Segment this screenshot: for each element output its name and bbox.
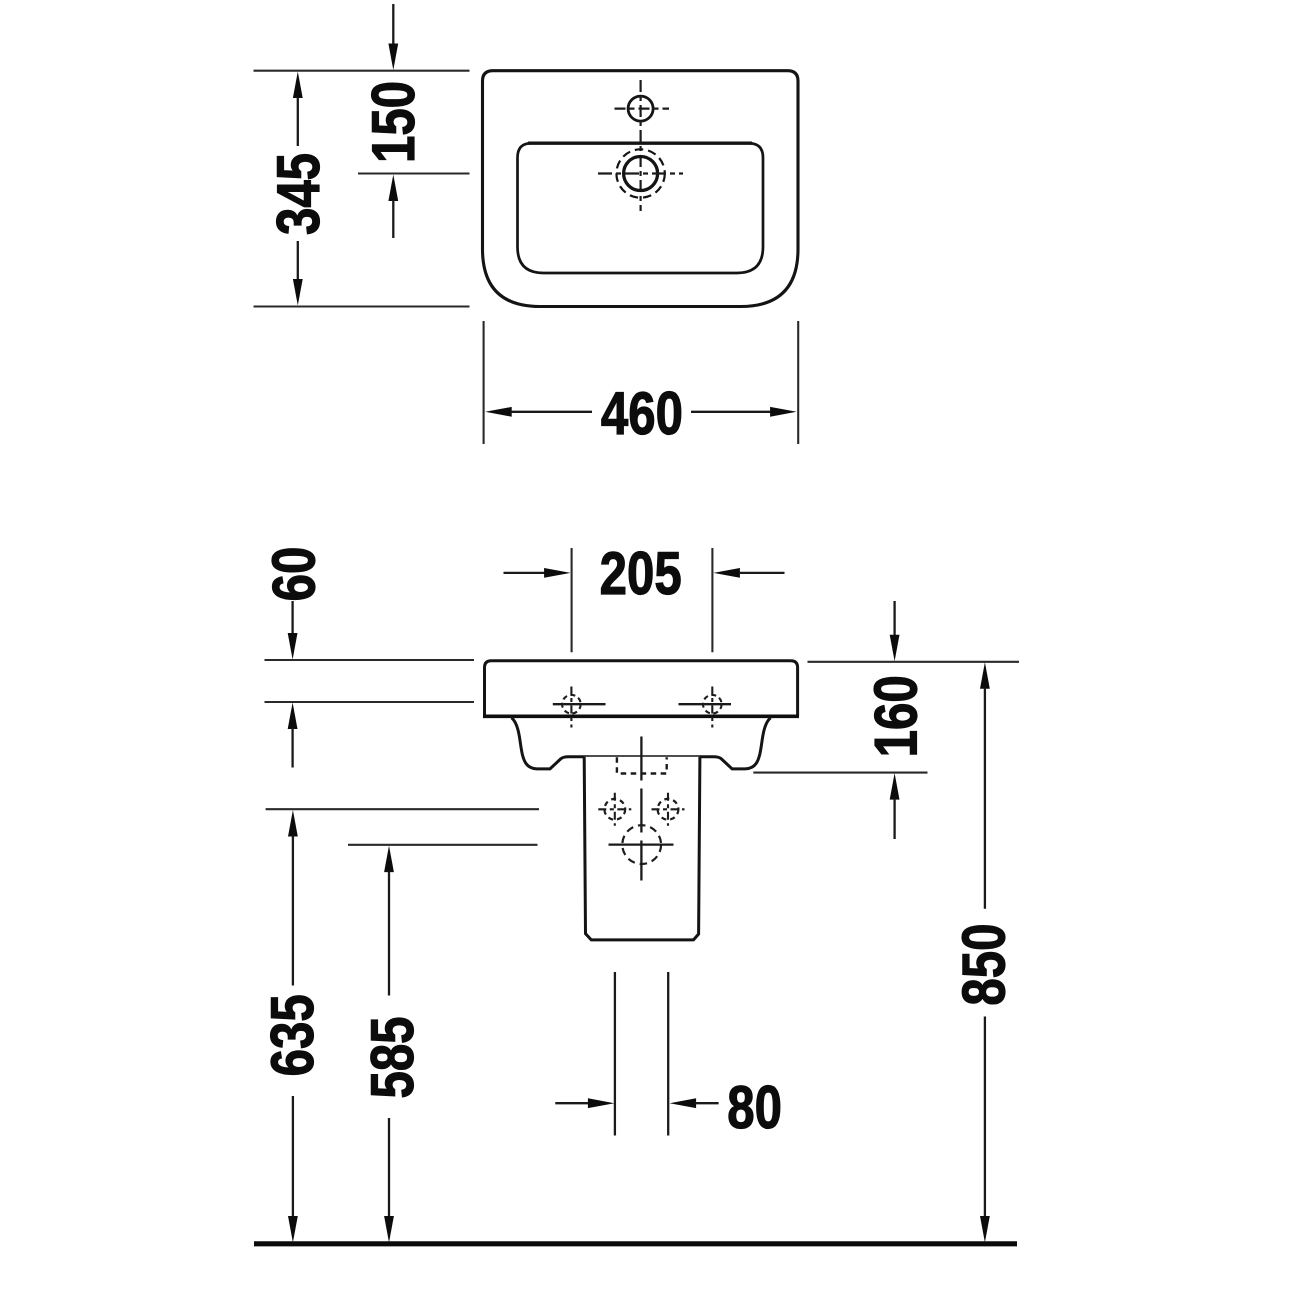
- dimension 160 upper arrow: [893, 601, 895, 635]
- dimension 585 upper arrow: [384, 846, 394, 873]
- siphon crosshair horizontal: [609, 843, 674, 845]
- dimension 205 left extension line (front view): [571, 548, 573, 652]
- extension line fixing holes level (front view): [265, 701, 475, 703]
- bowl front edge emphasis: [528, 141, 752, 144]
- right fixing hole crosshair line (front view): [679, 703, 732, 705]
- extension line basin underside level (front view): [753, 772, 927, 774]
- basin underside apron left profile (front view): [512, 718, 585, 769]
- extension line top of basin (plan): [254, 70, 470, 72]
- svg-text:80: 80: [727, 1073, 782, 1141]
- svg-text:60: 60: [260, 547, 328, 602]
- extension line pedestal holes level (front view): [266, 808, 539, 810]
- svg-text:585: 585: [358, 1016, 426, 1098]
- dimension 150 lower arrow: [388, 175, 398, 202]
- drain inner circle (plan view): [624, 157, 658, 191]
- dimension 460 left arrow: [485, 407, 512, 417]
- right pedestal fixing hole crosshair: [652, 808, 685, 810]
- dimension 205 right extension line (front view): [711, 548, 713, 652]
- ground line: [254, 1241, 1017, 1246]
- left pedestal fixing hole dashed circle (front view): [604, 799, 625, 820]
- basin underside apron right profile (front view): [700, 718, 771, 769]
- svg-text:850: 850: [950, 924, 1018, 1006]
- right drain pipe line (front view): [667, 972, 669, 1136]
- dimension 345 lower arrow: [297, 241, 299, 280]
- basin outer outline (plan view): [483, 71, 799, 307]
- extension line drain level (plan): [358, 172, 470, 174]
- svg-text:345: 345: [264, 153, 332, 235]
- dimension 160 lower arrow: [890, 773, 900, 800]
- extension line basin top right (front view): [808, 661, 1020, 663]
- drain outer dashed circle (plan view): [616, 149, 664, 197]
- dimension 80 right arrow: [670, 1098, 697, 1108]
- tap hole centerline horizontal: [615, 107, 670, 109]
- pedestal vertical centerline (front view): [640, 737, 642, 881]
- washbasin rim outline (front view): [485, 661, 798, 717]
- left drain pipe line (front view): [614, 972, 616, 1136]
- dimension 60 lower arrow: [288, 703, 298, 730]
- drain centerline horizontal: [598, 172, 683, 174]
- siphon dashed circle (front view): [622, 825, 661, 864]
- dimension 150 upper arrow: [392, 4, 394, 45]
- right pedestal fixing hole dashed circle (front view): [658, 799, 679, 820]
- extension line bottom of basin (plan): [254, 305, 470, 307]
- dimension 635 lower segment and arrow: [292, 1096, 294, 1217]
- centerline vertical through tap and drain: [639, 80, 641, 211]
- extension line siphon level (front view): [348, 844, 538, 846]
- svg-text:205: 205: [600, 539, 682, 607]
- dashed drain box in pedestal (front view): [617, 757, 667, 773]
- dimension 585 lower segment and arrow: [388, 1118, 390, 1217]
- washbasin rim bottom edge (front view): [483, 714, 799, 718]
- dimension 345 upper arrow: [293, 72, 303, 99]
- dimension 60 upper arrow: [291, 601, 293, 633]
- basin underside bottom line behind pedestal (front view): [584, 755, 700, 758]
- dimension 635 upper arrow: [288, 810, 298, 837]
- dimension 80 left arrow: [555, 1102, 590, 1104]
- left pedestal fixing hole crosshair: [598, 808, 631, 810]
- dimension 850 upper arrow: [980, 662, 990, 689]
- left fixing hole vertical dashed centerline: [570, 687, 572, 728]
- tap hole (plan view): [628, 96, 653, 121]
- svg-text:460: 460: [601, 379, 683, 447]
- dimension 460 right arrow: [691, 411, 772, 413]
- left fixing hole dashed circle (front view): [562, 695, 581, 714]
- svg-text:160: 160: [862, 675, 930, 757]
- dimension 460 right extension line: [797, 321, 799, 444]
- svg-text:150: 150: [359, 81, 427, 163]
- right fixing hole vertical dashed centerline: [711, 687, 713, 728]
- basin bowl inner outline (plan view): [518, 143, 764, 273]
- extension line basin top left (front view): [265, 659, 475, 661]
- dimension 205 right arrow: [713, 568, 740, 578]
- right fixing hole dashed circle (front view): [703, 695, 722, 714]
- pedestal / siphon cover outline (front view): [584, 757, 700, 940]
- dimension 460 left extension line: [483, 321, 485, 444]
- dimension 205 left arrow: [504, 572, 546, 574]
- svg-text:635: 635: [258, 994, 326, 1076]
- left fixing hole crosshair line (front view): [553, 703, 606, 705]
- dimension 850 lower segment and arrow: [984, 1017, 986, 1217]
